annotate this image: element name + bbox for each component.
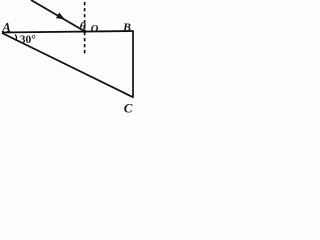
wire: side BC of triangle [132, 31, 134, 98]
angle arc at A (30 degrees) [15, 35, 16, 41]
wire: side AC (hypotenuse) [2, 33, 134, 98]
background [0, 0, 147, 120]
svg-text:A: A [1, 20, 11, 35]
svg-text:30°: 30° [20, 34, 37, 46]
wire: side AB of triangle [2, 31, 134, 33]
svg-text:O: O [91, 24, 99, 35]
svg-text:B: B [122, 20, 131, 34]
junction dot at O [83, 30, 86, 33]
arrowhead on incident ray [56, 13, 65, 20]
normal (dashed) at O [84, 2, 86, 54]
svg-text:θ: θ [80, 19, 87, 33]
incident light ray to O [31, 0, 85, 32]
svg-text:C: C [124, 100, 133, 115]
